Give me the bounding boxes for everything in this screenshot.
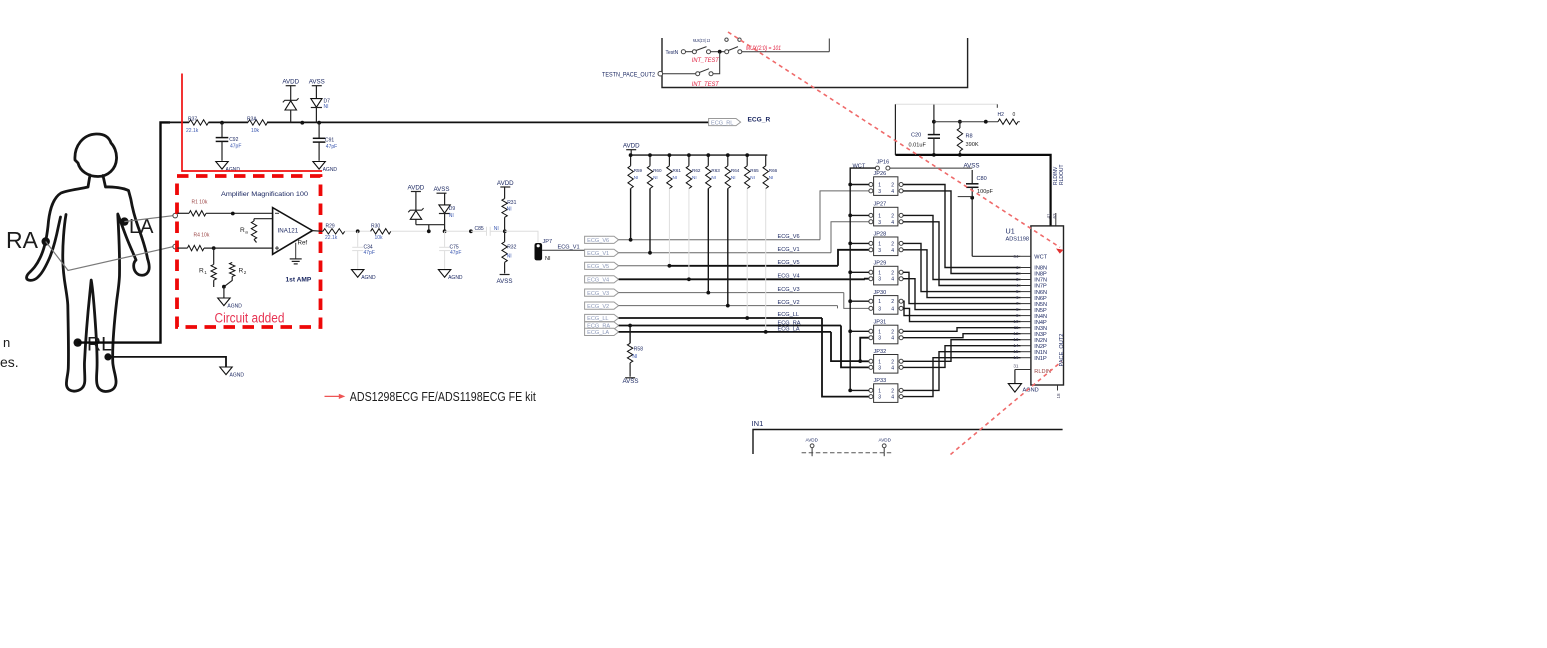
wire V3 riser to JP30 xyxy=(844,293,869,309)
chip pin 64 WCT xyxy=(1021,255,1031,257)
net flag ECG_V1 xyxy=(585,249,619,256)
net flag ECG_V4 xyxy=(585,276,619,283)
jumper JP26 xyxy=(874,177,898,196)
chip pin 8 IN5P xyxy=(1021,309,1031,311)
red arrow kit xyxy=(325,395,342,397)
diode D7 to AVSS xyxy=(315,86,317,99)
wire WCT bus stub JP31 xyxy=(850,330,869,332)
junction dot test node xyxy=(718,50,722,54)
wire vertical to RLD line xyxy=(894,104,896,155)
svg-text:8: 8 xyxy=(1016,307,1019,312)
human body figure outline xyxy=(27,134,150,392)
svg-text:ECG_LL: ECG_LL xyxy=(778,312,799,318)
wire thin top row xyxy=(934,121,998,123)
wire riser R63 to ECG_V3 xyxy=(707,189,709,293)
svg-text:11: 11 xyxy=(1014,325,1019,330)
wire TestN to switch1 xyxy=(686,51,693,53)
svg-text:NI: NI xyxy=(507,206,512,212)
svg-text:R59: R59 xyxy=(634,168,643,173)
wire V4 to JP29 xyxy=(865,278,869,281)
chip pin 31 RLDIN xyxy=(1015,369,1031,371)
svg-text:n: n xyxy=(3,335,10,350)
wire JP28 pin4 to chip xyxy=(903,250,1021,298)
svg-text:R29: R29 xyxy=(326,223,335,229)
svg-text:3: 3 xyxy=(878,220,881,226)
svg-text:INT_TEST: INT_TEST xyxy=(692,81,720,88)
chip pin 9 IN4N xyxy=(1021,315,1031,317)
svg-text:6: 6 xyxy=(1016,295,1019,300)
chip pin 2 IN8P xyxy=(1021,273,1031,275)
wire riser R64 to ECG_V2 xyxy=(727,189,729,306)
wire RA riser to JP32 xyxy=(841,326,869,368)
svg-text:AVDD: AVDD xyxy=(806,437,819,442)
svg-text:R4 10k: R4 10k xyxy=(194,232,210,238)
resistor R61 NI xyxy=(668,155,670,166)
svg-text:4: 4 xyxy=(891,248,894,254)
svg-text:47pF: 47pF xyxy=(450,250,461,256)
wire R30 to diode tap faint xyxy=(391,230,429,232)
wire RLD to chip top xyxy=(895,155,1050,226)
red dashed annotation A xyxy=(728,32,1060,247)
resistor R64 NI xyxy=(727,155,729,166)
wire JP7 to ECG_V1 flag xyxy=(542,249,585,251)
junction dot on -in xyxy=(212,246,216,250)
wire V1 riser to JP27 xyxy=(831,222,869,253)
svg-text:1: 1 xyxy=(878,183,881,189)
switch S1 (INT_TEST) xyxy=(692,50,696,54)
wire JP26 pin4 to chip xyxy=(903,191,1021,274)
svg-text:12: 12 xyxy=(1013,331,1019,336)
svg-text:INT_TEST: INT_TEST xyxy=(692,57,720,64)
svg-text:3: 3 xyxy=(1016,277,1019,282)
capacitor C20 xyxy=(933,105,935,135)
wire V2 riser join xyxy=(837,306,839,309)
wire JP27 pin4 to chip xyxy=(903,222,1021,286)
chip pin 6 IN6P xyxy=(1021,297,1031,299)
junction dot diode tap 2 xyxy=(317,121,321,125)
svg-text:ECG_V6: ECG_V6 xyxy=(587,238,609,244)
svg-text:1: 1 xyxy=(878,299,881,305)
wire WCT bus stub JP28 xyxy=(850,242,869,244)
jumper JP29 xyxy=(874,266,898,285)
svg-text:ECG_R: ECG_R xyxy=(748,116,771,123)
svg-text:NI: NI xyxy=(692,175,697,180)
capacitor C92 xyxy=(221,123,223,138)
junction dot diode tap 1 xyxy=(300,121,304,125)
svg-text:3: 3 xyxy=(878,277,881,283)
wire ECG_LA run xyxy=(619,331,831,333)
chip pin 12 IN3P xyxy=(1021,333,1031,335)
net flag ECG_V5 xyxy=(585,262,619,269)
wire R3A to ECG_R flag xyxy=(267,121,709,123)
wire ECG_V6 run xyxy=(619,239,820,241)
box IN1 outline xyxy=(753,430,1063,455)
ground AGND (C92) xyxy=(216,162,228,170)
svg-text:C80: C80 xyxy=(977,176,987,182)
resistor R31 NI xyxy=(504,187,506,199)
svg-text:C20: C20 xyxy=(911,132,921,138)
ground AGND (C34) xyxy=(352,270,364,278)
svg-text:4: 4 xyxy=(1016,283,1019,288)
chip pin 15 IN1N xyxy=(1021,351,1031,353)
ground AGND (C91) xyxy=(313,162,325,170)
wire ECG_V2 run xyxy=(619,305,838,307)
header circles xyxy=(725,38,728,41)
svg-text:2: 2 xyxy=(891,329,894,335)
resistor R29 xyxy=(323,229,345,234)
junction dot C85 left xyxy=(469,229,473,233)
svg-text:RA: RA xyxy=(6,227,39,253)
svg-text:ECG_LA: ECG_LA xyxy=(778,327,800,333)
wire C80 to WCT pin xyxy=(972,255,1021,257)
capacitor C85 NI (faint) xyxy=(471,230,487,232)
svg-text:2: 2 xyxy=(1016,271,1019,276)
svg-text:AVSS: AVSS xyxy=(623,378,639,385)
connector JP7 xyxy=(535,243,543,260)
svg-text:IN1P: IN1P xyxy=(1034,356,1047,362)
wire WCT bus stub JP27 xyxy=(850,214,869,216)
electrode RA dot xyxy=(42,237,50,245)
diode D8 to AVDD xyxy=(415,192,417,210)
resistor R1 input xyxy=(178,212,190,214)
svg-text:R62: R62 xyxy=(692,168,701,173)
wire WCT bus stub JP33 xyxy=(850,389,869,391)
svg-text:NI: NI xyxy=(711,175,716,180)
resistor R4 input xyxy=(178,247,188,249)
svg-text:3: 3 xyxy=(878,365,881,371)
wire WCT bus stub JP30 xyxy=(850,300,869,302)
net flag ECG_LA xyxy=(585,328,619,335)
svg-text:TESTN_PACE_OUT2: TESTN_PACE_OUT2 xyxy=(602,72,655,79)
svg-text:AGND: AGND xyxy=(448,275,463,281)
electrode left-leg dot xyxy=(104,353,111,360)
ground AGND (body leg) xyxy=(220,367,232,375)
wire ECG_V4 run xyxy=(619,278,865,280)
svg-text:ECG_RA: ECG_RA xyxy=(778,320,801,326)
wire ECG_RA run xyxy=(619,325,841,327)
wire RA electrode to amp input xyxy=(46,242,174,271)
junction dot C75 tap xyxy=(443,229,447,233)
svg-text:ECG_V5: ECG_V5 xyxy=(587,264,609,270)
svg-text:47pF: 47pF xyxy=(230,143,241,149)
net flag ECG_RA xyxy=(585,322,619,329)
svg-text:R32: R32 xyxy=(507,244,516,250)
svg-text:2: 2 xyxy=(244,270,247,275)
svg-text:16: 16 xyxy=(1013,355,1019,360)
svg-text:3: 3 xyxy=(878,189,881,195)
power AVSS (R32) xyxy=(500,274,510,276)
wire riser R65 to ECG_LL xyxy=(746,189,748,319)
svg-text:4: 4 xyxy=(891,189,894,195)
svg-text:NI: NI xyxy=(634,175,639,180)
svg-text:AVDD: AVDD xyxy=(623,143,640,150)
svg-text:3: 3 xyxy=(878,336,881,342)
svg-text:1: 1 xyxy=(878,359,881,365)
svg-text:JP31: JP31 xyxy=(874,320,887,326)
svg-text:Circuit added: Circuit added xyxy=(215,311,285,326)
svg-text:5: 5 xyxy=(1016,289,1019,294)
svg-text:R: R xyxy=(239,268,244,275)
wire pin31 to AGND xyxy=(1014,370,1016,384)
wire shunt to AGND xyxy=(223,287,225,298)
svg-text:R65: R65 xyxy=(750,168,759,173)
svg-text:NI: NI xyxy=(494,226,499,232)
svg-text:ADS1198: ADS1198 xyxy=(1006,236,1030,242)
junction dot on +in xyxy=(231,212,235,216)
svg-text:1: 1 xyxy=(878,388,881,394)
capacitor C91 xyxy=(315,108,317,123)
svg-text:7: 7 xyxy=(1016,301,1019,306)
svg-text:ECG_V5: ECG_V5 xyxy=(778,260,800,266)
svg-text:WCT: WCT xyxy=(1034,255,1047,261)
svg-text:AGND: AGND xyxy=(227,303,242,309)
wire stub to box top xyxy=(828,39,830,52)
svg-text:NI: NI xyxy=(750,175,755,180)
wire JP31 pin2 to chip xyxy=(903,328,1021,332)
wire WCT bus top xyxy=(850,168,875,390)
svg-text:IN4P: IN4P xyxy=(1034,320,1047,326)
svg-text:R58: R58 xyxy=(634,346,643,352)
svg-text:NI: NI xyxy=(324,104,329,110)
ground AGND (C75) xyxy=(438,270,450,278)
wire WCT bus stub JP29 xyxy=(850,271,869,273)
svg-text:R30: R30 xyxy=(371,223,380,229)
svg-text:AGND: AGND xyxy=(226,167,241,173)
svg-text:2: 2 xyxy=(891,299,894,305)
svg-text:R3A: R3A xyxy=(247,117,257,123)
svg-text:9: 9 xyxy=(1016,313,1019,318)
wire LA electrode to amp input xyxy=(124,216,172,222)
wire left-leg to AGND xyxy=(108,357,226,367)
svg-text:NI: NI xyxy=(769,175,774,180)
svg-text:NI: NI xyxy=(545,256,551,262)
svg-text:JP16: JP16 xyxy=(877,160,890,166)
svg-text:2: 2 xyxy=(891,183,894,189)
svg-text:NI: NI xyxy=(507,253,512,259)
svg-text:AVSS: AVSS xyxy=(433,186,449,193)
chip pin 5 IN6N xyxy=(1021,291,1031,293)
svg-text:AVSS: AVSS xyxy=(497,278,513,285)
svg-text:4: 4 xyxy=(891,306,894,312)
svg-text:ECG_V3: ECG_V3 xyxy=(778,287,800,293)
junction dot C92 tap xyxy=(220,121,224,125)
chip pin 3 IN7N xyxy=(1021,279,1031,281)
bank bus wire xyxy=(630,150,632,155)
svg-text:4: 4 xyxy=(891,336,894,342)
wire JP29 pin4 to chip xyxy=(903,279,1021,310)
svg-text:47pF: 47pF xyxy=(326,144,337,150)
ground AGND (amp) xyxy=(218,298,230,306)
svg-text:ECG_V1: ECG_V1 xyxy=(558,245,580,251)
svg-text:R64: R64 xyxy=(731,168,740,173)
junction dot C34 tap xyxy=(356,229,360,233)
svg-text:JP27: JP27 xyxy=(874,202,887,208)
svg-text:R63: R63 xyxy=(711,168,720,173)
capacitor C75 (faint) xyxy=(444,231,446,247)
svg-text:1: 1 xyxy=(1016,265,1019,270)
svg-text:31: 31 xyxy=(1013,363,1019,368)
chip bottom stub pin 18 xyxy=(1057,385,1059,391)
chip pin 4 IN7P xyxy=(1021,285,1031,287)
svg-text:RL: RL xyxy=(87,334,112,356)
svg-text:100pF: 100pF xyxy=(977,189,993,195)
red annotation line xyxy=(182,74,322,172)
wire ECG_V5 run xyxy=(619,265,670,267)
svg-text:ECG_RL: ECG_RL xyxy=(711,121,733,127)
wire riser R61 to ECG_V5 xyxy=(668,189,670,266)
svg-text:AVDD: AVDD xyxy=(497,180,514,187)
chip pin 16 IN1P xyxy=(1021,357,1031,359)
wire opamp out xyxy=(312,230,323,233)
svg-text:ECG_LA: ECG_LA xyxy=(587,330,609,336)
svg-text:JP30: JP30 xyxy=(874,290,887,296)
svg-text:1: 1 xyxy=(878,270,881,276)
resistor R59 NI xyxy=(630,155,632,166)
chip pin 11 IN3N xyxy=(1021,327,1031,329)
wire RL electrode to top chain xyxy=(78,122,170,342)
svg-text:4: 4 xyxy=(891,365,894,371)
svg-text:14: 14 xyxy=(1013,343,1019,348)
resistor R63 NI xyxy=(707,155,709,166)
svg-text:R: R xyxy=(199,268,204,275)
svg-text:PACE_OUT2: PACE_OUT2 xyxy=(1059,334,1065,367)
resistor R65 NI xyxy=(746,155,748,166)
capacitor C80 xyxy=(971,170,973,183)
resistor R32 NI xyxy=(504,231,506,242)
svg-text:1: 1 xyxy=(204,270,207,275)
svg-text:10k: 10k xyxy=(375,235,384,241)
wire test node down xyxy=(713,52,720,74)
svg-text:AVDD: AVDD xyxy=(408,184,425,191)
wire JP33 pin4 to chip xyxy=(903,358,1021,397)
svg-text:NI: NI xyxy=(653,175,658,180)
wire R29-R30 faint xyxy=(345,230,371,232)
switch S3 (INT_TEST) xyxy=(696,72,700,76)
svg-text:AGND: AGND xyxy=(361,275,376,281)
net flag ECG_V3 xyxy=(585,289,619,296)
svg-text:18: 18 xyxy=(1056,393,1061,399)
svg-text:JP28: JP28 xyxy=(874,231,887,237)
svg-text:390K: 390K xyxy=(966,142,979,148)
svg-text:47pF: 47pF xyxy=(364,250,375,256)
svg-text:ECG_V4: ECG_V4 xyxy=(778,274,800,280)
red dashed annotation B xyxy=(951,362,1062,455)
svg-text:IN1: IN1 xyxy=(752,419,764,428)
svg-text:AVSS: AVSS xyxy=(309,79,325,86)
svg-text:MUX(2:0) = 101: MUX(2:0) = 101 xyxy=(746,45,781,52)
svg-text:JP29: JP29 xyxy=(874,261,887,267)
junction dot shunt xyxy=(222,285,226,289)
wire JP30 pin2 to chip xyxy=(903,301,1021,315)
svg-text:AVDD: AVDD xyxy=(879,437,892,442)
svg-text:INA121: INA121 xyxy=(278,227,299,234)
svg-text:1: 1 xyxy=(878,241,881,247)
jumper JP27 xyxy=(874,207,898,226)
resistor H2 0ohm xyxy=(998,119,1018,124)
wire JP26 pin2 to chip xyxy=(903,185,1021,268)
wire JP33 pin2 to chip xyxy=(903,352,1021,391)
svg-text:RLDIN: RLDIN xyxy=(1034,369,1051,375)
svg-text:R: R xyxy=(240,227,245,234)
svg-text:ECG_V3: ECG_V3 xyxy=(587,291,609,297)
wire ECG_V1 run xyxy=(619,252,831,254)
net flag ECG_V2 xyxy=(585,302,619,309)
svg-text:1: 1 xyxy=(878,213,881,219)
jumper JP31 xyxy=(874,325,898,344)
jumper JP28 xyxy=(874,237,898,256)
resistor R58 NI xyxy=(629,326,631,344)
electrode LA dot xyxy=(120,217,128,225)
ground AGND (chip) xyxy=(1008,384,1021,393)
op-amp U2 INA121 xyxy=(273,208,313,255)
resistor R66 NI xyxy=(765,155,767,166)
faint top link line xyxy=(895,103,997,105)
resistor R37 xyxy=(189,120,209,125)
svg-text:R31: R31 xyxy=(507,200,516,206)
dashed link wire xyxy=(802,452,892,454)
svg-text:TestN: TestN xyxy=(666,50,679,56)
resistor R2 shunt xyxy=(230,263,235,277)
terminal circle amp input1 xyxy=(173,213,178,218)
svg-text:JP7: JP7 xyxy=(543,239,553,245)
svg-text:JP26: JP26 xyxy=(874,171,887,177)
wire riser R60 to ECG_V1 xyxy=(649,189,651,253)
svg-text:MUX(2:0) 13: MUX(2:0) 13 xyxy=(693,38,710,43)
net flag ECG_RL xyxy=(709,119,741,126)
wire top chain segment 1 xyxy=(168,121,189,123)
power AVSS (R58) xyxy=(625,377,635,379)
svg-text:NI: NI xyxy=(731,175,736,180)
svg-text:ECG_V1: ECG_V1 xyxy=(778,247,800,253)
svg-text:2: 2 xyxy=(891,270,894,276)
resistor R62 NI xyxy=(688,155,690,166)
svg-text:3: 3 xyxy=(878,395,881,401)
wire R37 to R3A xyxy=(209,121,249,123)
svg-text:ECG_V2: ECG_V2 xyxy=(778,300,800,306)
op-amp ref ground xyxy=(295,243,297,259)
junction dot C85 right xyxy=(503,229,507,233)
wire -in junction down xyxy=(213,248,215,264)
svg-text:R1 10k: R1 10k xyxy=(192,200,208,206)
svg-text:R66: R66 xyxy=(769,168,778,173)
svg-text:R61: R61 xyxy=(673,168,682,173)
wire RLDOUT stub xyxy=(1055,213,1057,226)
svg-text:NI: NI xyxy=(632,354,637,360)
svg-text:ADS1298ECG FE/ADS1198ECG FE ki: ADS1298ECG FE/ADS1198ECG FE kit xyxy=(350,390,536,404)
resistor R1 shunt xyxy=(211,264,216,280)
svg-text:JP32: JP32 xyxy=(874,349,887,355)
svg-text:4: 4 xyxy=(891,277,894,283)
wire to JP7 faint xyxy=(505,231,538,242)
svg-text:Amplifier Magnification 100: Amplifier Magnification 100 xyxy=(221,191,309,198)
svg-text:ECG_V2: ECG_V2 xyxy=(587,304,609,310)
svg-text:R8: R8 xyxy=(966,133,973,139)
svg-text:ECG_V1: ECG_V1 xyxy=(587,251,609,257)
wire LA riser to JP31/JP32 xyxy=(831,332,860,361)
svg-text:0.01uF: 0.01uF xyxy=(909,143,927,149)
resistor R60 NI xyxy=(649,155,651,166)
svg-text:41: 41 xyxy=(1046,213,1051,219)
wire LL riser to JP33 xyxy=(822,318,869,397)
diode D6 to AVDD xyxy=(290,86,292,100)
chip U1 ADS1198 outline xyxy=(1031,226,1064,385)
svg-text:63: 63 xyxy=(1052,213,1057,219)
svg-text:2: 2 xyxy=(891,359,894,365)
svg-text:0: 0 xyxy=(1013,112,1016,118)
svg-text:22.1k: 22.1k xyxy=(186,128,199,134)
svg-text:ECG_V6: ECG_V6 xyxy=(778,234,800,240)
svg-text:U1: U1 xyxy=(1006,226,1015,235)
